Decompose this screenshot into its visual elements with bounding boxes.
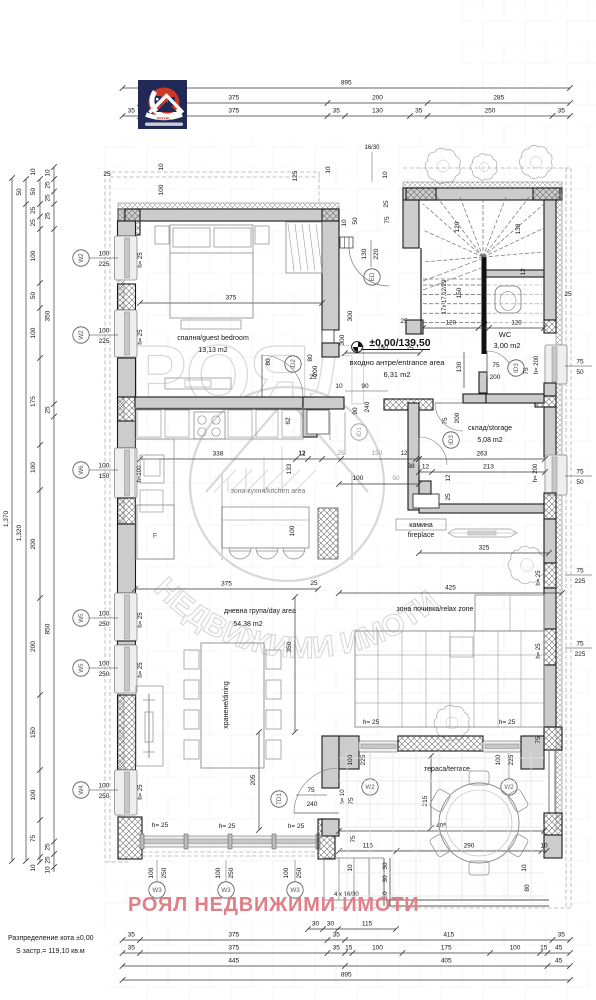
svg-text:h= 200: h= 200: [534, 355, 540, 374]
svg-text:15: 15: [540, 945, 548, 952]
svg-text:300: 300: [347, 310, 354, 321]
svg-text:25: 25: [445, 493, 452, 501]
svg-text:115: 115: [362, 921, 373, 928]
svg-text:375: 375: [228, 108, 239, 115]
svg-text:10: 10: [540, 843, 548, 850]
svg-text:h= 10: h= 10: [340, 789, 346, 805]
svg-text:375: 375: [228, 945, 239, 952]
svg-text:10: 10: [335, 383, 343, 390]
svg-text:h= 25: h= 25: [536, 570, 542, 586]
svg-text:220: 220: [373, 248, 380, 259]
svg-text:25: 25: [103, 171, 111, 178]
svg-text:h= 200: h= 200: [533, 463, 539, 482]
svg-text:WC: WC: [499, 330, 512, 339]
svg-text:16/30: 16/30: [364, 145, 380, 151]
svg-text:50: 50: [392, 475, 400, 482]
svg-text:30: 30: [382, 862, 389, 870]
svg-text:100: 100: [99, 661, 110, 668]
svg-text:F: F: [153, 533, 157, 540]
svg-text:200: 200: [490, 374, 501, 381]
svg-text:зона кухня/kitchen area: зона кухня/kitchen area: [231, 488, 306, 495]
svg-text:45: 45: [555, 945, 563, 952]
svg-text:входно антре/entrance area: входно антре/entrance area: [350, 358, 446, 367]
svg-text:15: 15: [345, 945, 353, 952]
svg-text:ED: ED: [369, 272, 376, 281]
svg-text:h= 25: h= 25: [288, 823, 305, 830]
svg-text:115: 115: [363, 843, 374, 850]
svg-text:25: 25: [30, 219, 37, 227]
svg-text:12: 12: [401, 451, 408, 457]
svg-text:35: 35: [558, 932, 566, 939]
svg-text:175: 175: [30, 396, 37, 407]
svg-text:263: 263: [477, 451, 488, 458]
svg-text:75: 75: [348, 797, 355, 805]
svg-text:спалня/guest bedroom: спалня/guest bedroom: [177, 335, 249, 342]
svg-text:25: 25: [310, 580, 318, 587]
svg-text:285: 285: [493, 95, 504, 102]
svg-text:S застр.= 119,10 кв.м: S застр.= 119,10 кв.м: [16, 948, 85, 955]
svg-text:75: 75: [30, 835, 37, 843]
svg-text:13,13 m2: 13,13 m2: [198, 347, 227, 354]
svg-text:25: 25: [45, 856, 52, 864]
svg-text:250: 250: [161, 867, 168, 878]
svg-text:25: 25: [45, 212, 52, 220]
svg-text:h= 25: h= 25: [138, 784, 144, 800]
svg-text:250: 250: [228, 867, 235, 878]
svg-text:375: 375: [221, 581, 232, 588]
svg-text:75: 75: [492, 362, 500, 369]
svg-text:дневна група/day area: дневна група/day area: [224, 608, 296, 615]
svg-text:338: 338: [213, 451, 224, 458]
svg-text:30: 30: [382, 875, 389, 883]
svg-text:ID3: ID3: [513, 363, 520, 373]
svg-text:90: 90: [361, 383, 369, 390]
svg-text:100: 100: [283, 867, 290, 878]
svg-text:240: 240: [307, 801, 318, 808]
svg-text:50: 50: [16, 188, 23, 196]
svg-text:25: 25: [337, 450, 345, 457]
svg-text:75: 75: [384, 216, 391, 224]
svg-text:35: 35: [333, 108, 341, 115]
svg-text:35: 35: [128, 945, 136, 952]
svg-text:h= 25: h= 25: [363, 719, 380, 726]
svg-text:12: 12: [445, 474, 452, 482]
svg-text:150: 150: [372, 450, 383, 457]
svg-text:30: 30: [327, 921, 335, 928]
svg-text:225: 225: [360, 754, 367, 765]
svg-text:h= 25: h= 25: [138, 612, 144, 628]
svg-text:100: 100: [30, 789, 37, 800]
svg-text:200: 200: [372, 95, 383, 102]
svg-text:50: 50: [30, 292, 37, 300]
svg-text:325: 325: [479, 545, 490, 552]
svg-text:25: 25: [383, 200, 390, 208]
svg-text:75: 75: [442, 417, 449, 425]
svg-text:90: 90: [352, 407, 359, 415]
svg-text:25: 25: [30, 206, 37, 214]
svg-text:213: 213: [483, 464, 494, 471]
svg-text:100: 100: [510, 945, 521, 952]
svg-text:W5: W5: [78, 613, 85, 623]
svg-text:240: 240: [364, 401, 371, 412]
svg-text:Разпределение кота ±0,00: Разпределение кота ±0,00: [8, 935, 94, 942]
svg-text:895: 895: [341, 972, 352, 979]
svg-text:133: 133: [286, 463, 293, 474]
svg-text:75: 75: [576, 359, 584, 366]
svg-text:225: 225: [508, 754, 515, 765]
svg-text:300: 300: [339, 334, 346, 345]
svg-text:ID1: ID1: [356, 427, 363, 437]
svg-text:TD1: TD1: [276, 793, 283, 805]
svg-text:W6: W6: [78, 465, 85, 475]
svg-text:175: 175: [441, 945, 452, 952]
svg-text:склад/storage: склад/storage: [468, 425, 512, 432]
svg-text:100: 100: [99, 463, 110, 470]
svg-text:375: 375: [228, 95, 239, 102]
svg-text:±0,00/139,50: ±0,00/139,50: [369, 337, 430, 349]
svg-text:80: 80: [265, 358, 272, 366]
svg-text:75: 75: [576, 641, 584, 648]
svg-text:100: 100: [495, 754, 502, 765]
svg-text:10: 10: [30, 864, 37, 872]
svg-text:5,08 m2: 5,08 m2: [477, 437, 502, 444]
svg-text:150: 150: [99, 473, 110, 480]
svg-text:10: 10: [45, 866, 52, 874]
svg-text:250: 250: [99, 621, 110, 628]
svg-text:W2: W2: [78, 330, 85, 340]
svg-text:35: 35: [558, 108, 566, 115]
svg-text:1,370: 1,370: [3, 510, 10, 527]
svg-text:75: 75: [535, 736, 542, 744]
svg-text:35: 35: [128, 108, 136, 115]
svg-text:10: 10: [158, 163, 165, 171]
svg-text:h= 25: h= 25: [499, 719, 516, 726]
svg-text:h= 25: h= 25: [138, 252, 144, 268]
svg-text:100: 100: [30, 327, 37, 338]
svg-text:445: 445: [228, 958, 239, 965]
svg-text:25: 25: [45, 181, 52, 189]
svg-text:215: 215: [422, 795, 429, 806]
svg-text:120: 120: [454, 221, 461, 232]
svg-text:200: 200: [30, 641, 37, 652]
svg-text:125: 125: [292, 170, 299, 181]
svg-text:75: 75: [576, 469, 584, 476]
svg-text:зона почивка/relax zone: зона почивка/relax zone: [397, 606, 474, 613]
svg-text:камина: камина: [409, 522, 433, 529]
svg-text:205: 205: [250, 774, 257, 785]
svg-text:ID2: ID2: [290, 359, 297, 369]
svg-text:h= 25: h= 25: [536, 643, 542, 659]
svg-text:138: 138: [515, 223, 522, 234]
svg-text:W5: W5: [78, 663, 85, 673]
svg-text:225: 225: [575, 651, 586, 658]
svg-text:10: 10: [45, 169, 52, 177]
svg-text:25: 25: [45, 406, 52, 414]
svg-text:895: 895: [341, 80, 352, 87]
svg-text:W2: W2: [78, 253, 85, 263]
svg-text:fireplace: fireplace: [408, 532, 435, 539]
svg-text:10: 10: [325, 166, 332, 174]
svg-text:75: 75: [576, 568, 584, 575]
svg-text:хранене/dining: хранене/dining: [223, 681, 230, 729]
svg-text:h= 25: h= 25: [219, 823, 236, 830]
svg-text:130: 130: [361, 248, 368, 259]
svg-text:200: 200: [312, 365, 319, 376]
svg-text:54.38 m2: 54.38 m2: [233, 621, 262, 628]
svg-text:50: 50: [576, 369, 584, 376]
svg-text:75: 75: [350, 835, 357, 843]
svg-text:12: 12: [299, 451, 306, 457]
svg-text:35: 35: [128, 932, 136, 939]
svg-text:425: 425: [445, 585, 456, 592]
svg-text:1,320: 1,320: [16, 524, 23, 541]
svg-text:10: 10: [341, 219, 348, 227]
svg-text:415: 415: [443, 932, 454, 939]
svg-text:250: 250: [296, 867, 303, 878]
svg-text:50: 50: [30, 188, 37, 196]
svg-text:225: 225: [575, 578, 586, 585]
svg-text:35: 35: [415, 108, 423, 115]
svg-text:10: 10: [480, 320, 487, 327]
svg-text:130: 130: [456, 361, 463, 372]
svg-text:375: 375: [228, 932, 239, 939]
svg-text:130: 130: [372, 108, 383, 115]
svg-text:225: 225: [99, 261, 110, 268]
svg-text:30: 30: [312, 921, 320, 928]
svg-text:80: 80: [524, 884, 531, 892]
svg-text:75: 75: [307, 787, 315, 794]
svg-text:250: 250: [99, 671, 110, 678]
svg-text:10: 10: [382, 171, 389, 179]
svg-text:50: 50: [576, 479, 584, 486]
svg-text:100: 100: [215, 867, 222, 878]
svg-text:10: 10: [30, 168, 37, 176]
svg-text:38: 38: [407, 463, 415, 470]
svg-text:100: 100: [30, 462, 37, 473]
svg-text:405: 405: [441, 958, 452, 965]
svg-text:100: 100: [99, 251, 110, 258]
svg-text:h= 25: h= 25: [138, 662, 144, 678]
svg-text:250: 250: [485, 108, 496, 115]
svg-text:ID3: ID3: [448, 435, 455, 445]
svg-text:80: 80: [307, 354, 314, 362]
svg-text:12: 12: [422, 464, 430, 471]
svg-text:3,00 m2: 3,00 m2: [493, 341, 520, 350]
svg-text:850: 850: [45, 623, 52, 634]
svg-text:350: 350: [45, 310, 52, 321]
svg-text:100: 100: [30, 250, 37, 261]
svg-text:100: 100: [99, 328, 110, 335]
svg-text:17x 17,12/29: 17x 17,12/29: [442, 279, 448, 314]
svg-text:100: 100: [353, 475, 364, 482]
svg-text:250: 250: [99, 793, 110, 800]
svg-text:290: 290: [464, 843, 475, 850]
svg-text:62: 62: [285, 417, 292, 425]
svg-text:h= 25: h= 25: [138, 329, 144, 345]
svg-text:25: 25: [564, 291, 572, 298]
svg-text:120: 120: [446, 320, 457, 327]
svg-text:25: 25: [45, 843, 52, 851]
svg-text:100: 100: [347, 754, 354, 765]
svg-text:ROYAL: ROYAL: [157, 116, 171, 121]
svg-text:35: 35: [333, 932, 341, 939]
svg-text:W2: W2: [504, 784, 514, 791]
svg-text:100: 100: [372, 945, 383, 952]
svg-text:405: 405: [436, 823, 447, 830]
svg-text:10: 10: [521, 864, 528, 872]
svg-text:375: 375: [226, 295, 237, 302]
svg-text:200: 200: [454, 412, 461, 423]
svg-text:W4: W4: [78, 785, 85, 795]
svg-text:50: 50: [352, 217, 359, 225]
svg-text:100: 100: [99, 783, 110, 790]
svg-text:h= 25: h= 25: [152, 822, 169, 829]
svg-text:200: 200: [30, 538, 37, 549]
svg-text:10: 10: [347, 864, 354, 872]
svg-text:75: 75: [523, 367, 530, 375]
svg-text:45: 45: [555, 958, 563, 965]
svg-text:100: 100: [158, 184, 165, 195]
svg-text:РОЯЛ НЕДВИЖИМИ ИМОТИ: РОЯЛ НЕДВИЖИМИ ИМОТИ: [128, 894, 419, 916]
svg-text:100: 100: [99, 611, 110, 618]
svg-text:12: 12: [520, 268, 527, 276]
svg-text:6,31 m2: 6,31 m2: [383, 370, 410, 379]
svg-text:150: 150: [30, 727, 37, 738]
svg-text:350: 350: [286, 641, 293, 652]
svg-text:150: 150: [456, 287, 463, 298]
svg-text:25: 25: [45, 194, 52, 202]
svg-text:120: 120: [511, 320, 522, 327]
svg-text:225: 225: [99, 338, 110, 345]
svg-text:100: 100: [289, 525, 296, 536]
svg-text:35: 35: [333, 945, 341, 952]
svg-text:100: 100: [148, 867, 155, 878]
